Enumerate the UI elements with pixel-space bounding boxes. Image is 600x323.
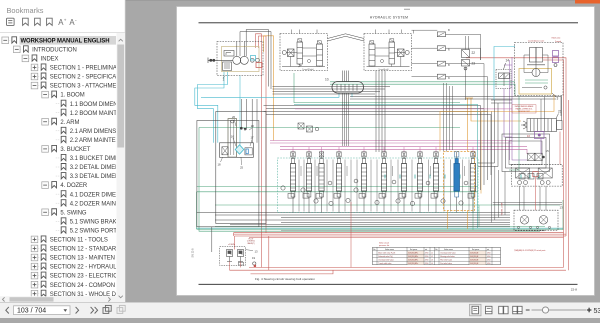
svg-text:16: 16 bbox=[231, 134, 235, 138]
toolbar icon new bookmark bbox=[23, 18, 29, 25]
svg-text:5. SWING: 5. SWING bbox=[60, 210, 87, 216]
bottom border rule bbox=[199, 283, 578, 285]
legend note bbox=[514, 249, 545, 252]
relief valves between spools bbox=[281, 179, 468, 205]
wire: green tank return trunk bbox=[197, 128, 564, 232]
tree row SECTION 1 - PRELIMINAR bbox=[31, 64, 122, 72]
wire: green lines to travel motor right bbox=[197, 73, 520, 187]
svg-text:No: No bbox=[373, 249, 375, 251]
tree row 3.3 DETAIL DIMEN bbox=[56, 173, 120, 181]
swivel joint 10 bbox=[325, 78, 364, 94]
svg-text:34.8(355)M: 34.8(355)M bbox=[470, 256, 479, 258]
svg-text:13: 13 bbox=[560, 206, 564, 210]
svg-text:Main relief valve P=(?): Main relief valve P=(?) bbox=[378, 252, 395, 255]
wire: black pump delivery top bundle bbox=[240, 30, 562, 121]
svg-text:=2.5MPa: =2.5MPa bbox=[228, 244, 235, 246]
svg-text:SWIVEL JOINT: SWIVEL JOINT bbox=[502, 202, 504, 216]
tree row SECTION 31 - WHOLE D bbox=[31, 290, 116, 298]
svg-text:14: 14 bbox=[506, 59, 510, 63]
tree row 1. BOOM bbox=[42, 91, 85, 99]
svg-text:Port relief valve: Port relief valve bbox=[440, 262, 452, 265]
svg-text:pressure list: pressure list bbox=[379, 244, 390, 247]
steering spool highlighted bbox=[454, 152, 460, 213]
svg-text:HYDRAULIC SYSTEM: HYDRAULIC SYSTEM bbox=[370, 16, 408, 20]
tree row SECTION 24 - COMPON bbox=[31, 281, 115, 289]
tree row SECTION 12 - STANDAR bbox=[31, 245, 117, 253]
port relief row below bank bbox=[288, 194, 474, 199]
tree row SECTION 3 - ATTACHME bbox=[31, 82, 116, 90]
travel motor group 3 bbox=[515, 37, 564, 100]
svg-text:18: 18 bbox=[218, 162, 222, 166]
tree row 5.1 SWING BRAK bbox=[56, 218, 117, 226]
shuttle valve 14 bbox=[496, 59, 511, 89]
svg-text:26: 26 bbox=[232, 115, 236, 119]
svg-text:13: 13 bbox=[255, 249, 259, 253]
control valve spool 2 bbox=[306, 152, 311, 213]
zoom slider bbox=[532, 307, 587, 313]
svg-text:5.1 SWING BRAK: 5.1 SWING BRAK bbox=[70, 219, 117, 225]
svg-text:22: 22 bbox=[472, 51, 476, 55]
tree row 3.2 DETAIL DIMEN bbox=[56, 164, 120, 172]
teal ticks on relief row bbox=[385, 175, 539, 179]
control valve spool 3 bbox=[319, 152, 324, 213]
svg-text:L2: L2 bbox=[431, 256, 433, 258]
svg-text:+: + bbox=[64, 17, 67, 22]
horizontal scrollbar bbox=[0, 296, 117, 302]
svg-text:4.1 DOZER DIMEN: 4.1 DOZER DIMEN bbox=[70, 192, 120, 198]
tree row INTRODUCTION bbox=[14, 46, 77, 54]
wire: pilot caps top of bank bbox=[293, 147, 384, 152]
svg-text:34.8(355)MPa: 34.8(355)MPa bbox=[408, 256, 418, 258]
svg-text:34.8(355)MPa: 34.8(355)MPa bbox=[408, 259, 418, 261]
pilot valve block 6 bbox=[437, 46, 450, 52]
nav prev page bbox=[6, 307, 9, 314]
small valves mid left bbox=[298, 123, 319, 132]
svg-text:Fig. 4 Slewing circuit/ slewi: Fig. 4 Slewing circuit/ slewing bolt ope… bbox=[255, 277, 315, 281]
rotary brake valve 21 bbox=[523, 110, 562, 132]
wire: teal return bottom bbox=[197, 227, 564, 229]
svg-text:Valve name: Valve name bbox=[444, 249, 453, 251]
svg-text:*(MA)(MB) 01-31 KPM(W) P5 actu: *(MA)(MB) 01-31 KPM(W) P5 actual parts bbox=[514, 249, 545, 252]
wire: tank return bottom extension bbox=[259, 226, 510, 228]
svg-text:SECTION 11 - TOOLS: SECTION 11 - TOOLS bbox=[50, 238, 108, 244]
svg-text:2.2 ARM MAINTEN: 2.2 ARM MAINTEN bbox=[70, 138, 120, 144]
wire: inter-spool feed verticals bbox=[299, 160, 469, 212]
svg-text:SECTION 23 - ELECTRIC: SECTION 23 - ELECTRIC bbox=[50, 274, 118, 280]
wire: cyan to steering unit bbox=[351, 93, 353, 97]
svg-text:Overload relief valve: Overload relief valve bbox=[440, 252, 455, 255]
tree row INDEX bbox=[22, 55, 58, 63]
wire: tank rect drain stub bbox=[211, 227, 213, 252]
bookmarks panel background bbox=[0, 0, 126, 303]
svg-text:Travel(Right): Travel(Right) bbox=[302, 68, 314, 71]
svg-text:20: 20 bbox=[251, 124, 255, 128]
tree row WORKSHOP MANUAL ENGLISH bbox=[2, 36, 117, 45]
wire: teal return mid bbox=[294, 104, 478, 228]
svg-text:Slewing relief valve: Slewing relief valve bbox=[440, 255, 455, 258]
vertical scrollbar bbox=[117, 33, 126, 303]
tree row 2.1 ARM DIMENSI bbox=[56, 127, 118, 135]
svg-text:1.1 BOOM DIMENS: 1.1 BOOM DIMENS bbox=[70, 102, 122, 108]
vertical edition text bbox=[192, 248, 195, 258]
pilot control valve 19 bbox=[220, 238, 258, 270]
svg-text:25: 25 bbox=[240, 165, 244, 169]
tree row 4. DOZER bbox=[42, 182, 88, 190]
svg-text:Set press.: Set press. bbox=[472, 248, 480, 251]
tree row 4.1 DOZER DIMEN bbox=[56, 191, 120, 199]
wire: purple swing brake line bbox=[504, 57, 527, 160]
svg-text:Counterbalance valve: Counterbalance valve bbox=[528, 39, 544, 42]
svg-text:SECTION 1 - PRELIMINAR: SECTION 1 - PRELIMINAR bbox=[50, 66, 122, 72]
control valve spool 4 bbox=[336, 152, 341, 213]
svg-text:4700: 4700 bbox=[425, 259, 429, 261]
svg-text:1. BOOM: 1. BOOM bbox=[60, 93, 84, 99]
orange scroll indicator top right bbox=[575, 0, 600, 4]
svg-text:SECTION 22 - HYDRAUL: SECTION 22 - HYDRAUL bbox=[50, 265, 117, 271]
remote control valve travel left 5 bbox=[364, 34, 412, 71]
toolbar icon next bookmark bbox=[35, 18, 41, 25]
svg-text:34.8(355)MPa: 34.8(355)MPa bbox=[408, 263, 418, 265]
suction tank unit bbox=[220, 119, 254, 158]
top border rule bbox=[199, 22, 579, 24]
solenoid valve block 15 bbox=[528, 149, 550, 161]
solenoid valve 23 bbox=[462, 60, 476, 70]
wire: orange line to steering spool bbox=[465, 36, 521, 152]
toolbar icon prev bookmark bbox=[47, 18, 53, 25]
svg-text:WORKSHOP MANUAL ENGLISH: WORKSHOP MANUAL ENGLISH bbox=[21, 38, 110, 44]
svg-text:4700: 4700 bbox=[487, 256, 491, 258]
valves inside travel group 12 bbox=[519, 174, 543, 180]
PDF page bbox=[177, 7, 595, 296]
wire: link between RC valves bbox=[328, 34, 365, 41]
tree row 5. SWING bbox=[42, 209, 87, 217]
svg-text:3.1 BUCKET DIME: 3.1 BUCKET DIME bbox=[70, 156, 119, 162]
svg-text:3: 3 bbox=[557, 97, 559, 101]
svg-text:15: 15 bbox=[546, 149, 550, 153]
svg-text:Travel(Left): Travel(Left) bbox=[378, 68, 388, 71]
wire: magenta caps right half bbox=[404, 147, 473, 152]
tree row SECTION 2 - SPECIFICAT bbox=[31, 73, 119, 81]
nav next page bbox=[76, 307, 79, 314]
zoom out bbox=[526, 309, 530, 311]
svg-text:VALVE(?): VALVE(?) bbox=[247, 242, 255, 245]
svg-text:19: 19 bbox=[252, 256, 256, 260]
svg-text:Relief valve: Relief valve bbox=[552, 37, 561, 39]
control valve spool 9 bbox=[433, 152, 438, 213]
pressure switch 16 bbox=[527, 132, 544, 155]
svg-text:22-8: 22-8 bbox=[571, 287, 577, 291]
tree row 5.2 SWING PORT bbox=[56, 227, 117, 235]
pilot cap boxes with X bbox=[291, 152, 475, 157]
svg-text:34.8(355)M: 34.8(355)M bbox=[470, 253, 479, 255]
wire: red right return riser bbox=[568, 100, 570, 270]
svg-text:2.1 ARM DIMENSI: 2.1 ARM DIMENSI bbox=[70, 129, 118, 135]
control valve spool 7 bbox=[401, 152, 406, 213]
svg-text:34.8(355)M: 34.8(355)M bbox=[470, 259, 479, 261]
svg-text:SECTION 13 - MAINTEN: SECTION 13 - MAINTEN bbox=[50, 256, 115, 262]
pump assembly 1 bbox=[208, 42, 263, 82]
zoom in bbox=[587, 308, 592, 313]
pump motor pair 13 bbox=[514, 206, 563, 231]
solenoid valve 22 bbox=[462, 50, 476, 58]
tree row SECTION 11 - TOOLS bbox=[31, 236, 108, 244]
svg-text:17: 17 bbox=[251, 136, 255, 140]
status bar bbox=[0, 303, 600, 319]
tree row 1.1 BOOM DIMENS bbox=[56, 100, 122, 108]
control valve spool 8 bbox=[417, 152, 422, 213]
svg-text:1.2 BOOM MAINTE: 1.2 BOOM MAINTE bbox=[70, 111, 121, 117]
svg-text:5.2 SWING PORT: 5.2 SWING PORT bbox=[70, 228, 117, 234]
tree row 4.2 DOZER MAINT bbox=[56, 200, 120, 208]
wire: purple solenoid feeds bbox=[504, 60, 542, 165]
toolbar divider bbox=[0, 32, 125, 34]
svg-text:103 / 704: 103 / 704 bbox=[17, 308, 46, 315]
nav last page bbox=[91, 307, 98, 314]
svg-text:Set press.: Set press. bbox=[410, 248, 418, 251]
wire: orange pilot supply top bbox=[264, 36, 274, 141]
svg-text:10.: 10. bbox=[325, 78, 330, 82]
svg-text:21: 21 bbox=[558, 110, 562, 114]
wire: red brake release line bbox=[559, 132, 561, 165]
orange dashed box around steering spool bbox=[444, 152, 475, 211]
wire: black verticals below RC valves bbox=[343, 71, 349, 106]
svg-text:SECTION 2 - SPECIFICAT: SECTION 2 - SPECIFICAT bbox=[50, 75, 120, 81]
control valve spool 5 bbox=[361, 152, 366, 213]
svg-text:3.3 DETAIL DIMEN: 3.3 DETAIL DIMEN bbox=[70, 174, 120, 180]
wire: red bottom loop bbox=[230, 231, 567, 274]
wire: magenta upper pilot bbox=[295, 108, 512, 110]
wire: red main relief line top bbox=[256, 34, 567, 268]
remote control valve travel right 4 bbox=[280, 34, 328, 71]
svg-text:SECTION 24 - COMPON: SECTION 24 - COMPON bbox=[50, 283, 115, 289]
red labels swing brake bbox=[512, 105, 536, 113]
main control valve bank 2 bbox=[278, 158, 479, 213]
wire: nested return loops right bbox=[478, 97, 562, 223]
svg-text:4700: 4700 bbox=[487, 253, 491, 255]
wire: links RC to pilot blocks bbox=[412, 30, 438, 76]
view mode continuous bbox=[486, 306, 493, 314]
wire: black return rectangles left bbox=[197, 112, 266, 227]
tree row 2.2 ARM MAINTEN bbox=[56, 136, 120, 144]
svg-text:L4: L4 bbox=[431, 263, 433, 265]
tree row 2. ARM bbox=[42, 118, 80, 126]
svg-text:INDEX: INDEX bbox=[41, 57, 59, 63]
svg-text:Solenoid valve P(r): Solenoid valve P(r) bbox=[378, 255, 393, 258]
tree row SECTION 23 - ELECTRIC bbox=[31, 272, 118, 280]
tree row SECTION 13 - MAINTEN bbox=[31, 254, 115, 262]
svg-text:1: 1 bbox=[223, 78, 225, 82]
svg-text:4700: 4700 bbox=[487, 259, 491, 261]
svg-text:23: 23 bbox=[472, 62, 476, 66]
wire: red vertical return left bbox=[262, 34, 267, 268]
colored port blocks near pump bbox=[251, 56, 263, 68]
wire: green drops right of bank bbox=[473, 192, 479, 230]
svg-text:53: 53 bbox=[594, 308, 600, 315]
svg-text:No: No bbox=[435, 249, 437, 251]
svg-text:L1: L1 bbox=[431, 253, 433, 255]
tree row 3. BUCKET bbox=[42, 145, 91, 153]
svg-text:4700: 4700 bbox=[425, 253, 429, 255]
travel motor group 12 bbox=[511, 165, 562, 211]
wire: pilot drops to steering section bbox=[444, 83, 453, 152]
swivel joint vertical label bbox=[502, 202, 504, 216]
wire: travel pilot lines down the middle bbox=[376, 71, 385, 153]
svg-text:4. DOZER: 4. DOZER bbox=[60, 183, 88, 189]
wire: verticals below swivel joint bbox=[343, 106, 349, 147]
snapshot icon disabled bbox=[117, 305, 125, 313]
svg-text:SECTION 12 - STANDAR: SECTION 12 - STANDAR bbox=[50, 247, 117, 253]
pilot valve block 8 bbox=[437, 28, 450, 37]
wire: black right bundle verticals bbox=[412, 30, 488, 111]
labels around tank bbox=[218, 115, 255, 169]
wire: cyan suction lines bbox=[195, 72, 339, 146]
svg-text:SM 22-8: SM 22-8 bbox=[192, 248, 195, 258]
wire: orange service line right bbox=[480, 111, 482, 193]
svg-text:Pilot relief valve: Pilot relief valve bbox=[440, 258, 452, 261]
svg-text:Travel relief valve: Travel relief valve bbox=[378, 262, 391, 265]
svg-text:3.2 DETAIL DIMEN: 3.2 DETAIL DIMEN bbox=[70, 165, 120, 171]
pilot valve block 7 bbox=[437, 61, 450, 67]
tank return drop lines bbox=[240, 99, 257, 143]
svg-text:Overload relief valve: Overload relief valve bbox=[378, 258, 393, 261]
wire: orange drains from steering section bbox=[448, 211, 468, 230]
snapshot icon bbox=[103, 305, 111, 313]
wire: cyan pilot feed to travel motor bbox=[494, 47, 515, 101]
wire: black mid distribution bbox=[264, 87, 562, 191]
svg-text:4700: 4700 bbox=[425, 263, 429, 265]
page number box bbox=[14, 306, 71, 315]
tree row SECTION 22 - HYDRAUL bbox=[31, 263, 117, 271]
svg-text:3. BUCKET: 3. BUCKET bbox=[60, 147, 90, 153]
wire: stubs above RC valves bbox=[292, 30, 402, 34]
svg-text:4700: 4700 bbox=[425, 256, 429, 258]
svg-text:INTRODUCTION: INTRODUCTION bbox=[32, 47, 77, 53]
legend table bbox=[373, 242, 501, 265]
pilot valve block 9 bbox=[437, 74, 450, 80]
svg-text:Bookmarks: Bookmarks bbox=[7, 6, 44, 15]
view mode facing bbox=[499, 306, 508, 314]
svg-text:2. ARM: 2. ARM bbox=[60, 120, 79, 126]
tree row 3.1 BUCKET DIME bbox=[56, 154, 119, 162]
control valve spool 6 bbox=[381, 152, 386, 213]
wire: black feeds from top bundle to mid bbox=[269, 30, 272, 90]
svg-text:L3: L3 bbox=[431, 259, 433, 261]
wire: magenta pilot lines middle bbox=[270, 141, 527, 155]
tree row 1.2 BOOM MAINTE bbox=[56, 109, 121, 117]
view mode single page active bbox=[470, 304, 482, 316]
svg-text:34.8(355)MPa: 34.8(355)MPa bbox=[408, 253, 418, 255]
svg-text:4700: 4700 bbox=[487, 263, 491, 265]
view mode continuous facing bbox=[513, 306, 522, 314]
svg-text:34.8(355)M: 34.8(355)M bbox=[470, 263, 479, 265]
svg-text:Valve name: Valve name bbox=[385, 249, 394, 251]
svg-text:4.2 DOZER MAINT: 4.2 DOZER MAINT bbox=[70, 201, 120, 207]
control valve spool 1 bbox=[290, 152, 295, 213]
control valve spool 10 bbox=[470, 152, 475, 213]
wire: black manifold bottom bbox=[197, 213, 511, 225]
wire: orange upper feed bbox=[440, 94, 554, 152]
toolbar icon options bbox=[7, 18, 15, 25]
svg-text:2-speed: 2-speed bbox=[555, 41, 561, 43]
svg-text:SECTION 3 - ATTACHME: SECTION 3 - ATTACHME bbox=[50, 84, 117, 90]
wire: red slewing drain drop bbox=[350, 202, 352, 267]
